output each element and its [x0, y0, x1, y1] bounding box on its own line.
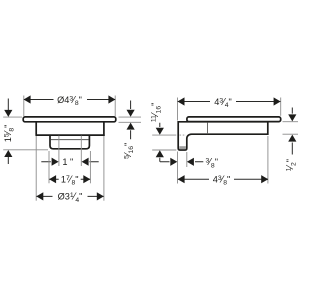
arrow right-pointing of 3/8 — [170, 158, 177, 166]
arrow left of dia 3-1/4 — [36, 192, 43, 200]
arrow right-pointing of 1 inch — [52, 158, 59, 166]
dimension 4-3/8 line — [178, 178, 268, 180]
arrow left of dia 4-3/8 — [24, 95, 31, 103]
pad (grey foot pad in leg) — [179, 146, 186, 149]
arrow right of 4-3/8 — [261, 175, 268, 183]
extension line top-right (for dia 4-3/8) — [114, 96, 116, 117]
svg-text:11⁄16": 11⁄16" — [150, 103, 162, 123]
dimension dia 4-3/8 line — [24, 99, 115, 101]
arrow left of 4-3/8 — [178, 175, 185, 183]
extension line leg bottom level — [152, 149, 176, 151]
svg-text:43⁄4": 43⁄4" — [214, 97, 232, 109]
extension line arm underside level — [152, 134, 176, 136]
dimension 4-3/4 line — [178, 101, 281, 103]
plate (top cover plate) — [23, 117, 116, 122]
dimension dia 3-1/4 line — [37, 195, 104, 197]
arrow up of 11/16 — [156, 150, 164, 157]
svg-text:17⁄8": 17⁄8" — [61, 174, 79, 186]
dimension 3/8 line — [160, 161, 203, 163]
arrow right of dia 3-1/4 — [97, 192, 104, 200]
arrow down of 11/16 — [156, 128, 164, 135]
shelf plate (side view) — [187, 117, 281, 122]
internal joint line in arm — [207, 123, 209, 135]
extension line right upper (for 5/16) — [119, 116, 142, 118]
svg-text:3⁄8": 3⁄8" — [206, 157, 218, 169]
dimension 1-5/8 line — [7, 99, 9, 165]
extension line for 1/2 upper — [283, 121, 299, 123]
extension line top-right of side view — [280, 98, 282, 116]
extension line for 1/2 lower — [283, 133, 299, 135]
dimension 5/16 line — [130, 101, 132, 140]
extension line top-left of side view — [177, 98, 179, 184]
arrow left-pointing of 1 inch — [82, 158, 89, 166]
extension line for 3/8 right — [186, 152, 188, 167]
recess (soap dish lower recess) — [50, 135, 89, 149]
arrow up of 5/16 — [127, 123, 135, 130]
arrow down of 1-5/8 — [4, 110, 12, 117]
arrow left of 4-3/4 — [178, 97, 185, 105]
dimension 11/16 line — [159, 123, 161, 162]
extension line for dia 3-1/4 left — [35, 136, 37, 201]
arrow left of 1-7/8 — [49, 175, 56, 183]
extension line for dia 3-1/4 right — [103, 136, 105, 201]
svg-text:Ø31⁄4": Ø31⁄4" — [58, 192, 83, 204]
arrow up of 1/2 — [288, 135, 296, 142]
svg-text:1 ": 1 " — [62, 157, 73, 167]
extension line top-left (for dia 4-3/8) — [23, 96, 25, 117]
arrow right of 4-3/4 — [274, 97, 281, 105]
svg-text:Ø43⁄8": Ø43⁄8" — [57, 95, 82, 107]
extension line for 1-7/8 right — [89, 151, 91, 183]
extension line right lower (for 5/16) — [119, 121, 142, 123]
arrow down of 5/16 — [127, 110, 135, 117]
body (upper housing) — [35, 122, 104, 136]
arrow up of 1-5/8 — [4, 150, 12, 157]
dimension 1/2 line — [291, 108, 293, 155]
extension line arm right end — [267, 136, 269, 184]
arrow right of 1-7/8 — [83, 175, 90, 183]
dimension 1-7/8 line — [49, 178, 90, 180]
svg-text:5⁄16": 5⁄16" — [123, 143, 135, 159]
dimension 1 inch line — [41, 161, 98, 163]
extension line left upper (for 1-5/8) — [3, 116, 22, 118]
arrow down of 1/2 — [288, 114, 296, 121]
svg-text:1⁄2": 1⁄2" — [285, 159, 297, 171]
svg-text:15⁄8": 15⁄8" — [3, 125, 15, 143]
recess inner step line — [51, 139, 89, 141]
extension line for 1-7/8 left — [48, 151, 50, 183]
extension line left lower (for 1-5/8) — [3, 149, 48, 151]
arrow left-pointing of 3/8 — [187, 158, 194, 166]
arrow right of dia 4-3/8 — [108, 95, 115, 103]
extension line for 1 inch right — [80, 136, 82, 166]
dash line through leg at arm underside level — [180, 134, 187, 136]
svg-text:43⁄8": 43⁄8" — [213, 174, 231, 186]
extension line for 1 inch left — [58, 136, 60, 166]
bracket (L-shaped wall bracket) — [178, 122, 268, 150]
